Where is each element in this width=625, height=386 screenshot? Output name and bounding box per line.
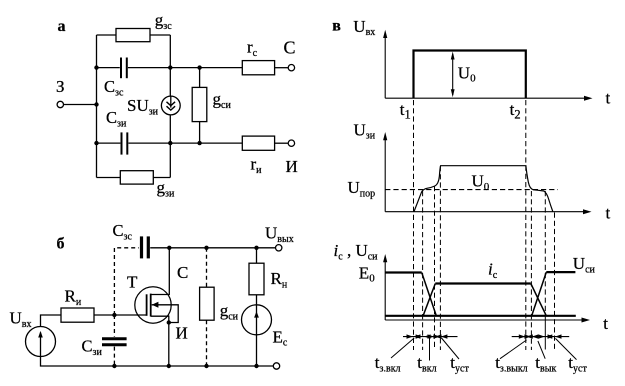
resistor g_зи: [120, 171, 153, 184]
junction gate node: [112, 313, 116, 317]
transistor substrate arrow: [152, 302, 159, 308]
leader t_уст left: [442, 338, 460, 359]
wire r_с to C: [275, 67, 289, 69]
terminal И: [288, 140, 294, 146]
conductance g_си: [192, 87, 207, 121]
wire R_н to E_с: [256, 295, 258, 305]
svg-text:И: И: [176, 324, 188, 343]
capacitor C_зи: [122, 132, 128, 154]
svg-text:t: t: [606, 203, 611, 222]
leader t_уст right: [555, 338, 576, 359]
dimension arrows turn-off d: [548, 334, 555, 338]
junction g_си top: [204, 246, 208, 250]
leader t_вкл: [429, 337, 431, 361]
svg-text:С: С: [177, 263, 188, 282]
wire U_вх to R_и: [41, 315, 62, 326]
wire drain tap: [151, 248, 170, 295]
wire gate input: [64, 104, 97, 106]
leader t_з.вкл: [391, 338, 414, 358]
wire g_си lower: [199, 122, 201, 144]
waveform U_си rising edge: [532, 272, 547, 316]
wire C_зи row right to r_и: [128, 142, 242, 144]
dashed marker turn-on threshold: [422, 191, 424, 350]
waveform U_вх pulse: [414, 51, 526, 99]
wire drain row to U_вых: [150, 247, 275, 249]
axis2 t: [385, 211, 588, 213]
junction R_н top: [254, 246, 258, 250]
dashed marker turn-off end: [554, 213, 556, 351]
capacitor C_зс: [121, 58, 127, 79]
wire right bus upper: [169, 35, 171, 96]
junction right C_зи: [168, 141, 172, 145]
svg-text:в: в: [332, 18, 341, 35]
threshold dashed level U_пор: [385, 189, 558, 191]
dashed marker t1: [413, 100, 415, 350]
dimension arrow U_0: [452, 54, 454, 95]
waveform U_си falling edge: [422, 273, 437, 316]
dimension arrows turn-on d: [433, 334, 440, 338]
transistor gate bar: [146, 294, 148, 316]
dimension arrows turn-on b: [416, 334, 423, 338]
dashed marker i_с settled: [434, 186, 436, 350]
wire bottom branch right: [153, 177, 170, 179]
source E_с: [242, 305, 272, 335]
waveform i_с high: [435, 282, 531, 284]
junction g_си top: [197, 65, 201, 69]
wire source tap: [151, 316, 169, 366]
dashed marker t2: [525, 100, 527, 350]
junction drain top: [167, 246, 171, 250]
wire bottom branch left: [97, 177, 121, 179]
junction substrate-source: [167, 320, 171, 324]
dimension arrows turn-off b: [524, 334, 531, 338]
waveform U_зи: [414, 166, 553, 212]
terminal U_вых: [276, 245, 282, 251]
wire R_н upper: [256, 248, 258, 263]
transistor T body: [135, 287, 171, 323]
junction g_си bottom: [197, 141, 201, 145]
svg-text:а: а: [58, 18, 66, 35]
waveform i_с falling edge: [531, 284, 547, 316]
axis2 Y: [384, 136, 386, 212]
dimension arrows turn-off c: [538, 334, 545, 338]
resistor r_с: [242, 61, 274, 75]
svg-text:С: С: [284, 38, 296, 58]
resistor R_и: [61, 308, 94, 322]
source U_вх: [26, 327, 56, 357]
waveform U_си high right: [546, 271, 575, 273]
junction gate-bus: [94, 102, 98, 106]
current source SU_зи: [161, 96, 180, 115]
waveform U_си high left: [385, 271, 422, 273]
dimension line turn-on: [403, 336, 458, 338]
wire dashed C_зи to rail: [113, 347, 115, 366]
capacitor C_зи: [102, 339, 127, 345]
axis1 t: [385, 97, 589, 99]
axis3 Y: [384, 258, 386, 321]
junction left C_зи: [94, 141, 98, 145]
wire substrate loop: [152, 305, 179, 323]
axis3 t: [385, 319, 586, 321]
wire g_си upper: [199, 68, 201, 88]
junction right C_зс: [168, 65, 172, 69]
dashed marker U_зи settled: [439, 166, 441, 350]
leader t_з.выкл: [500, 340, 527, 359]
junction rail source: [167, 364, 171, 368]
svg-text:Т: Т: [127, 273, 138, 292]
resistor r_и: [242, 136, 274, 150]
wire dashed gate to C_зс: [114, 248, 138, 315]
conductance g_си: [200, 287, 215, 320]
dashed marker turn-off threshold: [530, 191, 532, 350]
junction left C_зс: [94, 65, 98, 69]
wire gate row: [94, 314, 147, 316]
svg-text:З: З: [56, 77, 65, 96]
transistor channel bar: [150, 294, 152, 317]
terminal bottom right: [273, 363, 279, 369]
resistor g_зс: [116, 29, 150, 42]
wire top branch left: [97, 34, 117, 36]
wire dashed g_си lower: [206, 320, 208, 366]
leader t_вык: [538, 341, 545, 359]
dimension arrows turn-off t2: [519, 334, 526, 338]
terminal З: [57, 101, 63, 107]
capacitor C_зс: [142, 236, 149, 258]
wire left bus: [96, 35, 98, 178]
wire top branch right: [150, 34, 170, 36]
waveform low shared line: [385, 315, 576, 317]
wire r_и to И: [275, 142, 289, 144]
svg-text:И: И: [286, 157, 298, 176]
waveform i_с rising edge: [423, 284, 435, 316]
dimension arrows turn-on c: [428, 334, 435, 338]
wire right bus lower: [169, 115, 171, 177]
junction rail C_зи: [112, 364, 116, 368]
wire C_зс row right to r_с: [128, 67, 242, 69]
dimension line turn-off: [512, 336, 570, 338]
axis1 Y: [384, 33, 386, 98]
wire C_зс row left: [97, 67, 120, 69]
wire dashed g_си upper: [206, 248, 208, 287]
junction rail g_си: [204, 364, 208, 368]
junction rail E_с: [254, 364, 258, 368]
wire ground rail: [41, 357, 274, 366]
resistor R_н: [249, 263, 264, 295]
terminal C: [288, 65, 294, 71]
wire dashed gate to C_зи: [113, 315, 115, 337]
svg-text:б: б: [57, 235, 65, 252]
svg-text:t: t: [603, 314, 608, 333]
svg-text:t: t: [606, 89, 611, 108]
marker U_си settled: [544, 191, 546, 318]
dimension arrows turn-on t1: [407, 334, 414, 338]
wire E_с to rail: [256, 335, 258, 366]
wire C_зи row left: [97, 142, 121, 144]
